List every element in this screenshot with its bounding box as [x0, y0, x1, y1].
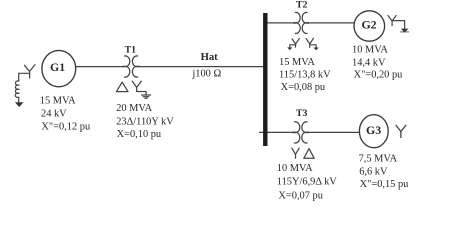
svg-text:20 MVA: 20 MVA: [116, 103, 152, 114]
svg-text:14,4 kV: 14,4 kV: [352, 57, 386, 68]
svg-text:X"=0,15 pu: X"=0,15 pu: [360, 179, 410, 190]
svg-text:7,5 MVA: 7,5 MVA: [359, 153, 398, 164]
svg-text:23Δ/110Y kV: 23Δ/110Y kV: [116, 117, 174, 128]
svg-text:T1: T1: [125, 44, 137, 55]
svg-text:X=0,10 pu: X=0,10 pu: [117, 129, 162, 140]
svg-text:G2: G2: [361, 18, 376, 32]
svg-text:G1: G1: [50, 60, 65, 74]
svg-text:24 kV: 24 kV: [41, 108, 67, 119]
svg-text:j100 Ω: j100 Ω: [191, 69, 221, 80]
svg-text:T3: T3: [296, 108, 308, 119]
svg-text:Hat: Hat: [201, 52, 219, 63]
svg-text:X=0,07 pu: X=0,07 pu: [278, 190, 323, 201]
svg-text:G3: G3: [366, 123, 381, 137]
svg-text:6,6 kV: 6,6 kV: [359, 167, 388, 178]
svg-text:15 MVA: 15 MVA: [279, 57, 315, 68]
svg-text:10 MVA: 10 MVA: [352, 45, 388, 56]
svg-text:15 MVA: 15 MVA: [40, 95, 76, 106]
svg-text:X=0,08 pu: X=0,08 pu: [281, 82, 326, 93]
svg-text:115Y/6,9Δ kV: 115Y/6,9Δ kV: [277, 177, 337, 188]
svg-text:115/13,8 kV: 115/13,8 kV: [279, 69, 331, 80]
svg-text:T2: T2: [296, 0, 308, 11]
svg-text:X"=0,20 pu: X"=0,20 pu: [354, 70, 404, 81]
svg-text:X"=0,12 pu: X"=0,12 pu: [41, 121, 91, 132]
svg-text:10 MVA: 10 MVA: [277, 163, 313, 174]
